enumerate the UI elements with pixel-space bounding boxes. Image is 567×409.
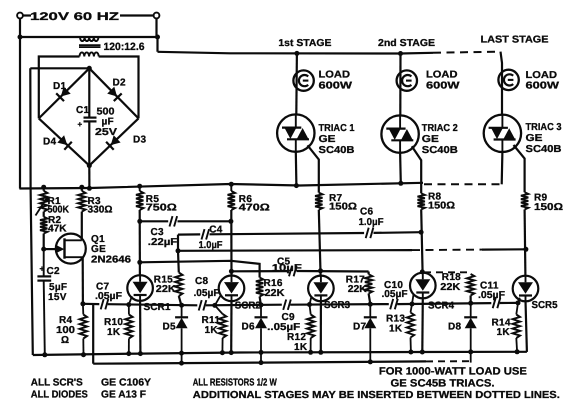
wire triac3 gate lead [514,145,525,192]
resistor R8 150 [418,193,425,209]
wire triac1 MT1 to bus [295,152,298,186]
svg-text:600W: 600W [319,81,353,92]
wire R16 to J2 [260,297,261,305]
wire R9 to SCR5 anode [523,210,526,277]
svg-text:.22µF: .22µF [148,237,178,248]
node gate line [259,302,264,307]
node triac1-bus [294,183,299,188]
transformer T1 secondary coil [80,52,99,56]
svg-text:D1: D1 [53,81,67,92]
svg-text:C8: C8 [195,276,209,287]
diode D3 [111,135,121,145]
resistor R7 150 [315,193,322,210]
wire positive bus dashed [424,183,502,185]
wire R6 to SCR2 anode [230,210,232,276]
wire positive bus [19,183,423,189]
wire R15 to J1 [179,296,182,305]
node railA D8x [468,349,473,354]
wire top bus [158,52,434,54]
wire R18 to J4 [470,296,472,304]
wire R1 lead [43,187,45,191]
svg-text:2nd STAGE: 2nd STAGE [378,38,435,49]
svg-text:LOAD: LOAD [319,70,351,81]
svg-text:15V: 15V [48,292,67,303]
svg-text:GE: GE [526,133,543,144]
resistor R11 1K [215,305,223,314]
wire rail A (DC minus) [33,352,527,355]
resistor R16 22K [256,278,263,297]
svg-text:GE A13 F: GE A13 F [101,390,146,401]
node triac2-bus [398,181,403,186]
wire lineB dashed [412,249,482,252]
node railA R13 [408,350,413,355]
diode D4 [57,135,67,145]
wire R1-R2 [43,212,45,217]
node C3-R5 [137,219,142,224]
svg-text:150Ω: 150Ω [428,200,455,211]
resistor R2 47K [40,217,47,234]
svg-text:SC40B: SC40B [526,144,562,155]
wire SCR1 gate [129,296,132,304]
diode D5 [181,305,183,317]
capacitor C6 1.0uF [366,228,369,238]
triac TRIAC3 [484,115,521,152]
svg-text:10µF: 10µF [272,263,302,274]
svg-text:2N2646: 2N2646 [91,255,131,266]
svg-text:25V: 25V [95,127,117,138]
resistor R9 150 [521,192,528,209]
node railB D7 [368,359,373,364]
svg-text:ALL RESISTORS 1/2 W: ALL RESISTORS 1/2 W [193,377,277,388]
wire B1 drop [82,257,84,304]
wire triac3 MT1 to bus [501,152,504,185]
resistor R6 470 [229,182,234,187]
resistor R5 750 [137,184,142,189]
svg-text:LAST STAGE: LAST STAGE [481,35,549,46]
diode D2 [107,87,117,97]
svg-text:750Ω: 750Ω [146,203,177,214]
node bridge top [87,66,92,71]
node gate line [126,302,131,307]
wire R3 to B2 [81,212,83,241]
wire SCR4 cathode [421,298,424,352]
wire SCR2 cathode [230,301,233,353]
svg-text:600W: 600W [526,81,560,92]
wire C5 line [231,270,287,272]
wire bridge edge T-R [89,68,138,118]
svg-text:+: + [78,120,83,129]
svg-text:FOR 1000-WATT LOAD USE: FOR 1000-WATT LOAD USE [379,365,527,377]
node bridge bottom [87,163,92,168]
node gate line [368,302,373,307]
svg-text:LOAD: LOAD [426,70,458,81]
node railA SCR1 [138,351,143,356]
svg-text:LOAD: LOAD [526,70,558,81]
svg-text:120:12.6: 120:12.6 [104,41,145,53]
svg-text:TRIAC 2: TRIAC 2 [422,123,458,134]
svg-text:SC40B: SC40B [422,145,458,156]
node railA R10 [126,351,131,356]
svg-text:GE: GE [319,134,336,145]
svg-text:C1: C1 [76,105,90,116]
svg-text:SCR1: SCR1 [144,302,171,313]
svg-text:.05µF: .05µF [382,289,408,300]
node primary-right [155,35,160,40]
svg-text:ALL SCR'S: ALL SCR'S [31,377,83,388]
svg-text:..05µF: ..05µF [267,322,300,333]
wire lineA stub [177,235,179,251]
triac TRIAC1 [277,114,314,151]
svg-text:1K: 1K [205,325,219,336]
node railB D6 [259,360,264,365]
node railA C2 [42,352,47,357]
wire left rail [19,18,21,188]
svg-text:C4: C4 [209,224,223,235]
svg-text:1K: 1K [107,327,121,338]
svg-text:C2: C2 [47,266,61,277]
SCR2 [219,276,245,302]
svg-text:22K: 22K [156,284,177,295]
node lineA-R8 [419,230,424,235]
SCR1 [127,275,153,301]
svg-text:.05µF: .05µF [478,290,505,301]
wire top bus dashed [433,52,501,53]
svg-text:TRIAC 3: TRIAC 3 [526,122,562,133]
node gate line [410,302,415,307]
resistor R10 1K [128,305,130,315]
wire bridge bottom to bus [88,166,90,189]
wire triac2 MT1 to bus [399,153,402,184]
SCR5 [513,276,539,302]
node lineB-R9 [523,247,528,252]
wire bridge top to C1 [88,68,90,117]
node R1 top [41,185,46,190]
wire R8 to SCR4 anode [421,209,422,273]
svg-text:ALL DIODES: ALL DIODES [31,390,88,401]
pot arrow R1 [36,198,48,216]
resistor R1 500K pot [40,191,47,212]
svg-text:Ω: Ω [61,335,69,346]
wire rail B (trigger bus) [93,361,426,363]
svg-text:SCR2: SCR2 [235,300,261,311]
SCR3 [308,276,334,302]
node gate line [516,300,521,305]
node gate line [80,301,85,306]
node gate line [468,301,473,306]
wire triac1 gate lead [308,145,319,192]
wire SCR4 gate [412,295,414,305]
capacitor C2 5uF [43,249,45,276]
svg-text:ADDITIONAL STAGES MAY BE INSER: ADDITIONAL STAGES MAY BE INSERTED BETWEE… [193,390,560,401]
svg-text:22K: 22K [265,288,286,299]
wire rail B dashed [426,360,471,362]
svg-text:SC40B: SC40B [319,145,355,156]
svg-text:22K: 22K [440,282,461,293]
svg-text:D5: D5 [163,322,177,333]
capacitor C11 .05uF [493,298,496,308]
resistor R13 1K [411,304,413,313]
wire bridge edge L-B [39,118,90,165]
svg-text:D7: D7 [353,322,367,333]
svg-text:C6: C6 [360,206,374,217]
node railB D5 [179,361,184,366]
wire SCR3 cathode [320,301,322,353]
node gate line [307,302,312,307]
svg-text:.05µF: .05µF [194,288,220,299]
node bridge-bus [87,186,92,191]
node stage2 top [398,51,403,56]
node lineB left [176,248,181,253]
node railA D6x [259,350,264,355]
svg-text:150Ω: 150Ω [534,202,563,213]
svg-text:TRIAC 1: TRIAC 1 [319,123,355,134]
diode D6 [260,305,262,317]
wire emitter lead [44,248,58,250]
svg-text:D6: D6 [242,322,256,333]
svg-text:D4: D4 [43,137,57,148]
wire R5 to SCR1 anode [139,210,141,276]
svg-text:SCR5: SCR5 [532,300,558,311]
svg-text:120V 60 HZ: 120V 60 HZ [30,11,119,23]
svg-text:470Ω: 470Ω [239,203,270,214]
wire secondary right [99,57,139,119]
node gate line [179,303,184,308]
resistor R12 1K [310,305,311,315]
transistor Q1 2N2646 UJT [56,234,86,264]
capacitor C9 .05uF [283,300,286,310]
svg-text:1K: 1K [294,342,308,353]
node C5-R6 [229,269,234,274]
svg-text:µF: µF [102,117,114,128]
node C3-R6 [228,219,233,224]
lamp LOAD3 600W [498,70,518,90]
svg-text:D2: D2 [113,78,127,89]
svg-text:GE C106Y: GE C106Y [101,377,151,388]
node gate line [212,303,217,308]
node railA R14 [515,349,520,354]
capacitor C1 [84,116,97,118]
wire lineB solid2 [482,248,526,251]
transformer T1 primary coil [80,37,98,41]
wire bridge edge T-L [39,68,90,118]
resistor R15 22K [175,273,182,297]
wire primary line [20,36,158,38]
node railA R11 [220,350,225,355]
resistor R18 22K [467,274,474,296]
svg-text:1K: 1K [497,327,511,338]
wire C1 to bridge bottom [88,121,90,165]
terminal right (120V) [154,13,160,19]
svg-text:GE SC45B TRIACS.: GE SC45B TRIACS. [391,378,495,390]
resistor R17 22K [365,274,372,293]
wire trigger tap [92,304,94,364]
triac TRIAC2 [381,115,418,152]
node stage1 top [294,51,299,56]
wire lineB solid1 [178,249,412,252]
SCR4 [410,273,436,299]
wire C3 line [140,220,168,222]
wire R3 lead [81,187,83,191]
wire SCR5 cathode [526,301,527,352]
wire bridge top to left [30,67,89,69]
svg-text:1.0µF: 1.0µF [359,217,384,228]
wire lineA C4C6 [178,233,200,235]
node SCR3 anode [318,268,323,273]
node SCR4 anode [420,269,425,274]
wire DC minus drop [30,68,33,355]
capacitor C10 .05uF [390,299,393,309]
wire R18 dashed lead [424,271,470,273]
capacitor C3 .22uF [170,216,173,226]
wire SCR2 gate [215,296,221,306]
node railA SCR4 [420,350,425,355]
wire last stage drop [501,52,503,115]
svg-text:D3: D3 [133,135,147,146]
wire R17 lead [368,272,370,275]
wire right terminal drop [157,18,158,51]
svg-text:+: + [40,264,45,274]
wire R2 to emitter node [43,234,45,250]
node railA R4 [81,352,86,357]
svg-text:150Ω: 150Ω [329,202,357,213]
diode D7 [369,304,371,317]
lamp LOAD2 600W [397,70,417,90]
resistor R3 330 [78,191,85,212]
diode D8 [470,303,472,317]
svg-text:SCR3: SCR3 [324,300,350,311]
capacitor C8 .05uF [199,300,202,310]
svg-text:330Ω: 330Ω [88,205,113,216]
capacitor C4 1.0uF [202,229,205,239]
wire 120V top line [23,14,31,16]
node railA SCR3 [318,350,323,355]
svg-text:SCR4: SCR4 [428,301,454,312]
wire stage1 column upper [295,53,298,114]
svg-text:22K: 22K [348,284,368,295]
wire line4 SCR1-R16 [140,261,260,278]
resistor R14 1K [516,303,518,315]
wire trigger gate line [83,303,99,306]
node railA D5x [179,351,184,356]
node primary-left [18,35,23,40]
svg-text:47K: 47K [48,224,67,235]
wire R17 to J3 [369,294,371,305]
wire R15 lead [177,251,180,273]
node R3 top [79,185,84,190]
svg-text:D8: D8 [448,322,462,333]
diode D1 [61,87,71,97]
capacitor C7 .05uF [101,299,104,309]
wire SCR5 gate [518,298,520,303]
wire secondary left [39,57,80,119]
wire SCR3 gate [310,296,312,304]
svg-text:1st STAGE: 1st STAGE [278,38,331,49]
wire triac2 gate lead [412,146,421,193]
svg-text:1K: 1K [389,323,403,334]
node railA R12 [308,350,313,355]
node railA SCR2 [229,350,234,355]
wire SCR1 cathode [139,300,141,353]
terminal left (120V) [17,13,23,19]
transformer T1 core [79,44,101,46]
resistor R4 100 [82,304,84,315]
wire R7 to SCR3 anode [319,210,321,276]
svg-text:600W: 600W [426,81,460,92]
svg-text:Q1: Q1 [91,234,105,245]
node SCR1 anode [137,260,142,265]
svg-text:1.0µF: 1.0µF [199,240,223,251]
svg-text:.05µF: .05µF [95,291,122,302]
capacitor C5 10uF [289,266,292,276]
node emitter junction [41,247,46,252]
svg-text:GE: GE [422,134,439,145]
wire stage2 column upper [399,54,401,116]
wire bridge edge R-B [89,118,138,165]
lamp LOAD1 600W [293,70,313,90]
